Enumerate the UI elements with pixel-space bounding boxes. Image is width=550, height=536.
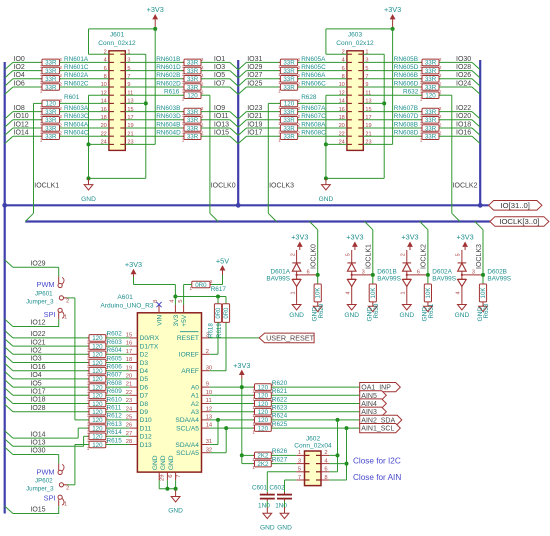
wire R607 to arduino [106,378,129,380]
junction GND J601 [87,176,91,180]
bus entry IO3 [5,355,13,362]
svg-text:R602: R602 [107,331,123,338]
bus entry IO17 [238,136,246,143]
label OA1_INP [360,383,401,392]
resistor RN605A 33R [280,59,297,66]
resistor R606 120 [89,367,106,374]
svg-text:1N0: 1N0 [275,502,287,509]
wire R620 to label [271,386,359,388]
ground [284,507,286,513]
svg-text:IOCLK1: IOCLK1 [366,244,373,269]
svg-text:IO26: IO26 [456,72,471,79]
wire J603 to RN608D [363,135,422,137]
svg-text:RN608C: RN608C [301,130,326,137]
svg-text:2: 2 [59,114,62,119]
junction SDA [336,418,340,422]
pin D10 (25) [129,419,137,421]
svg-text:IO27: IO27 [247,72,262,79]
svg-text:1: 1 [252,430,255,435]
wire R612 to arduino [106,419,129,421]
svg-text:+3V3: +3V3 [384,5,401,14]
resistor RN606D 33R [422,84,439,91]
svg-text:2: 2 [439,90,442,95]
svg-text:2: 2 [298,98,301,103]
wire J602 pin5 to C601 [267,471,296,473]
wire +3V3 top loop J603 [326,28,393,30]
resistor RN601B 33R [184,59,201,66]
pin GND (7) [175,472,177,480]
svg-text:RN607C: RN607C [301,113,326,120]
bus entry IO11 [230,120,238,127]
wire R603 to arduino [106,345,129,347]
svg-text:+3V3: +3V3 [125,260,142,269]
wire JP602 mid to D13 [74,445,76,485]
wire IO4 to resistor [13,78,42,80]
svg-text:IO31: IO31 [247,56,262,63]
junction SCL [345,426,349,430]
resistor R622 120 [255,400,272,407]
bus entry IO2 [5,347,13,354]
wire RN606C to J603 [298,86,347,88]
svg-text:RN604B: RN604B [156,121,180,128]
jumper JP602 Jumper_3 [56,454,59,456]
wire IO14 [13,437,78,439]
wire R625 to label [271,427,359,429]
bus entry IO18 [5,396,13,403]
svg-text:10K: 10K [481,288,487,299]
svg-text:33R: 33R [425,134,437,141]
svg-text:IO7: IO7 [214,80,225,87]
bus entry IO21 [5,339,13,346]
svg-text:2: 2 [439,81,442,86]
wire J603 to RN606B [363,78,422,80]
svg-text:120: 120 [92,376,103,383]
wire C602 gnd [284,501,286,507]
wire J601 to RN602B [125,78,184,80]
bus IO[31..0] vertical left [4,62,6,514]
svg-text:RN606B: RN606B [394,72,418,79]
pin AREF (30) [202,370,210,372]
svg-text:IO6: IO6 [14,80,25,87]
pin IOREF (2) [202,353,210,355]
wire pin12 GND loop [88,95,90,178]
svg-text:120: 120 [92,393,103,400]
wire IO12 to resistor [13,127,42,129]
wire J601 pin11 to R616 [125,94,184,96]
svg-text:RN608D: RN608D [394,130,419,137]
svg-text:2: 2 [201,57,204,62]
svg-text:2: 2 [439,106,442,111]
wire R621 to label [271,394,359,396]
svg-text:IO15: IO15 [30,507,45,514]
resistor RN604C 33R [42,133,60,140]
wire R628 to J603 pin14 [298,102,347,104]
svg-text:0R0: 0R0 [216,307,222,319]
svg-text:PWM: PWM [37,467,55,476]
svg-text:RN603B: RN603B [156,105,180,112]
svg-text:10K: 10K [316,288,322,299]
wire IO10 to resistor [13,119,42,121]
svg-text:IO15: IO15 [214,130,229,137]
bus entry IO17 [5,388,13,395]
pin VIN (8) [158,305,160,313]
bus label IO[31..0] [489,201,542,211]
wire RN607B to IO22 [439,111,472,113]
svg-text:J603: J603 [348,31,363,38]
resistor R613 120 [89,425,106,432]
svg-text:33R: 33R [425,84,437,91]
svg-text:R622: R622 [272,396,288,403]
bus entry IO8 [5,112,13,119]
svg-text:R605: R605 [107,355,123,362]
svg-text:Jumper_3: Jumper_3 [26,486,54,493]
pin D4 (19) [129,370,137,372]
svg-text:GND: GND [168,508,183,515]
svg-text:2: 2 [439,73,442,78]
svg-text:120: 120 [284,101,295,108]
svg-text:D9: D9 [140,409,149,416]
wire pin32 loop [225,428,227,453]
resistor R603 120 [89,343,106,350]
resistor R608 120 [89,384,106,391]
label AIN5 [360,391,387,400]
wire IO8 to resistor [13,111,42,113]
svg-text:RN605C: RN605C [301,64,326,71]
svg-text:2: 2 [298,106,301,111]
svg-text:GND: GND [289,312,304,319]
bus entry IOCLK1 [25,213,33,221]
pin D9 (24) [129,411,137,413]
svg-text:AIN1_SCL: AIN1_SCL [361,426,394,433]
svg-text:R624: R624 [272,413,288,420]
resistor RN605B 33R [422,59,439,66]
svg-text:33R: 33R [187,134,199,141]
resistor RN607B 33R [422,108,439,115]
svg-text:7: 7 [176,475,182,478]
svg-text:C601: C601 [252,484,268,491]
svg-text:2: 2 [201,106,204,111]
svg-text:IO17: IO17 [30,389,45,396]
bus junction right [478,203,483,208]
svg-text:RN602B: RN602B [156,72,180,79]
pin A1 (10) [202,394,210,396]
svg-text:+3V3: +3V3 [456,233,473,242]
svg-text:33R: 33R [187,76,199,83]
wire +3V3 vertical [154,29,156,144]
svg-text:D13: D13 [140,442,152,449]
svg-text:IO5: IO5 [30,380,41,387]
bus entry IO14 [5,136,13,143]
wire pin1 [125,53,146,55]
resistor R617 0R0 [192,281,210,288]
pin D6 (21) [129,386,137,388]
diode D602B BAV99S [461,250,463,263]
svg-text:33R: 33R [283,84,295,91]
svg-text:33R: 33R [45,134,57,141]
pin D0/RX (15) [129,337,137,339]
svg-text:R601: R601 [64,94,80,101]
wire to R626 [242,454,255,456]
svg-text:1: 1 [182,138,185,143]
bus entry IO19 [238,128,246,135]
svg-text:GND: GND [160,455,167,470]
bus label IOCLK[3..0] [490,217,549,227]
wire RN605C to J603 [298,70,347,72]
svg-text:IO9: IO9 [214,105,225,112]
wire R606 to arduino [106,370,129,372]
resistor RN603C 33R [42,117,60,124]
wire R617 to +5V pin [184,284,192,286]
wire J603 to RN606D [363,86,422,88]
svg-text:2: 2 [401,253,407,256]
svg-text:R630: R630 [373,303,380,318]
svg-text:1: 1 [40,138,43,143]
wire IO2 [13,353,89,355]
wire RN601B to IO1 [201,61,230,63]
svg-text:Close for I2C: Close for I2C [353,457,401,466]
wire pin12 [89,94,109,96]
svg-text:R625: R625 [272,421,288,428]
bus entry IOCLK2 clamp [420,222,428,230]
wire RN603A to J601 [60,111,109,113]
pin A2 (11) [202,403,210,405]
bus entry IOCLK3 [268,213,276,221]
resistor R626 2K2 [255,452,272,459]
svg-text:33R: 33R [187,68,199,75]
svg-text:A2: A2 [191,401,199,408]
svg-text:+3V3: +3V3 [291,233,308,242]
wire C601 gnd [266,501,268,507]
wire RN601A to J601 [60,61,109,63]
svg-text:2: 2 [201,81,204,86]
svg-text:D602A: D602A [432,269,452,276]
svg-text:2: 2 [298,131,301,136]
resistor RN608A 33R [280,125,297,132]
junction IOCLK3 clamp [481,273,485,277]
junction IOCLK0 clamp [316,273,320,277]
bus entry IO4 [5,372,13,379]
svg-text:2: 2 [439,122,442,127]
wire A to R624 [210,419,255,421]
wire A to R621 [210,394,255,396]
svg-text:R604: R604 [107,347,123,354]
wire pin23 J603 [363,143,392,145]
wire IOCLK3 clamp [482,230,484,284]
svg-text:R632: R632 [403,89,419,96]
resistor R623 120 [255,408,272,415]
wire +3V3 feed [133,277,135,285]
svg-text:D12: D12 [140,434,152,441]
svg-text:D602B: D602B [487,269,507,276]
svg-text:PWM: PWM [37,280,55,289]
svg-text:2: 2 [298,81,301,86]
svg-text:2: 2 [201,122,204,127]
label AIN1_SCL [360,424,401,433]
wire IO27 to resistor [246,78,280,80]
svg-text:IO2: IO2 [30,348,41,355]
svg-text:IO24: IO24 [456,80,471,87]
resistor R611 120 [89,408,106,415]
svg-text:2: 2 [298,114,301,119]
svg-text:RN604C: RN604C [64,130,89,137]
svg-text:J601: J601 [110,31,125,38]
wire pin1-13 GND loop J603 [383,54,385,178]
svg-text:IO14: IO14 [14,130,29,137]
svg-text:33R: 33R [283,117,295,124]
bus entry IO31 [238,62,246,69]
jumper JP601 Jumper_3 [56,266,59,268]
svg-text:IO3: IO3 [30,356,41,363]
svg-text:33R: 33R [187,117,199,124]
wire pin13 [125,102,146,104]
wire J602 pin2 [329,454,337,456]
wire RN602A to J601 [60,78,109,80]
resistor RN602D 33R [184,84,201,91]
wire J603 to RN608B [363,127,422,129]
svg-text:1: 1 [252,465,255,470]
wire J603 to RN607B [363,111,422,113]
svg-text:2: 2 [324,450,327,456]
resistor RN606C 33R [280,84,297,91]
svg-text:+3V3: +3V3 [147,5,164,14]
wire R601 to J601 pin14 [60,102,109,104]
wire pin12 J603 [326,94,347,96]
wire +5V to R617 [222,275,224,285]
wire A to R623 [210,411,255,413]
svg-text:A601: A601 [117,294,133,301]
resistor R628 120 [280,100,297,107]
svg-text:1: 1 [64,315,67,321]
wire IO0 to resistor [13,61,42,63]
wire IO25 to resistor [246,86,280,88]
wire GND bottom J603 [326,177,384,179]
wire 3V3 rail to R618 R619 [175,296,226,298]
svg-text:SPI: SPI [44,493,56,502]
bus entry IO21 [238,120,246,127]
svg-text:33R: 33R [425,76,437,83]
wire pin24 J603 [326,143,347,145]
bus entry IO30 [5,447,13,454]
pin A0 (9) [202,386,210,388]
svg-text:2: 2 [298,122,301,127]
wire pin2 drop J603 [325,29,327,54]
svg-text:120: 120 [258,417,269,424]
wire IOCLK3 vertical [268,102,280,104]
svg-text:Conn_02x12: Conn_02x12 [98,40,136,47]
svg-text:IO23: IO23 [247,105,262,112]
resistor RN606A 33R [280,76,297,83]
wire R608 to arduino [106,386,129,388]
svg-text:A3: A3 [191,409,199,416]
svg-text:RN601D: RN601D [156,64,181,71]
resistor R631 10K [424,284,431,302]
svg-text:GND: GND [81,196,96,203]
wire J602 pin4 [329,463,346,465]
bus entry IO4 [5,79,13,86]
bus entry IO16 [472,136,480,143]
svg-text:33R: 33R [187,109,199,116]
ground [461,303,463,304]
bus entry IO22 [5,331,13,338]
svg-text:RN606D: RN606D [394,80,419,87]
svg-text:IO4: IO4 [30,372,41,379]
bus entry IO25 [238,87,246,94]
wire RN603B to IO9 [201,111,230,113]
wire IO5 [13,386,89,388]
svg-text:120: 120 [258,425,269,432]
svg-text:IO17: IO17 [247,130,262,137]
svg-text:120: 120 [92,335,103,342]
wire IOCLK0 clamp [317,230,319,284]
svg-text:IO14: IO14 [30,431,45,438]
junction SCL J602 pin4 [345,462,349,466]
svg-text:VIN: VIN [156,315,163,326]
wire IO30 [13,454,56,456]
svg-text:D0/RX: D0/RX [140,335,160,342]
wire R610 to arduino [106,403,129,405]
svg-text:IO1: IO1 [214,56,225,63]
pin D7 (22) [129,394,137,396]
svg-text:Conn_02x04: Conn_02x04 [294,442,332,449]
pin D1/TX (16) [129,345,137,347]
svg-text:BAV99S: BAV99S [487,276,511,283]
svg-text:+5V: +5V [181,314,188,327]
resistor R601 120 [42,100,60,107]
resistor R627 2K2 [255,460,272,467]
wire R619 to AREF [225,322,227,370]
ground R631 [427,305,429,307]
ground [266,507,268,513]
wire RN603C to J601 [60,119,109,121]
wire RN607D to IO20 [439,119,472,121]
bus IO[31..0] horizontal [4,204,489,206]
connector J603 Conn_02x12 [347,51,363,151]
svg-text:IO12: IO12 [30,320,45,327]
svg-text:R629: R629 [318,303,325,318]
ground [296,303,298,304]
resistor RN602A 33R [42,76,60,83]
connector J602 Conn_02x04 [305,451,322,486]
resistor R604 120 [89,351,106,358]
svg-text:R618: R618 [208,323,215,338]
bus entry IO9 [230,112,238,119]
junction 3V3 rail [173,295,177,299]
svg-text:33R: 33R [45,76,57,83]
wire IO17 to resistor [246,135,280,137]
resistor R624 120 [255,417,272,424]
ground [175,490,177,496]
wire RN608C to J603 [298,135,347,137]
bus entry IO10 [5,120,13,127]
wire RN606D to IO24 [439,86,472,88]
svg-text:2: 2 [206,349,209,355]
junction IOCLK1 clamp [371,273,375,277]
svg-text:2: 2 [66,299,69,305]
bus entry IO15 [5,506,13,513]
wire IOCLK1 vertical [34,102,43,104]
svg-text:120: 120 [92,360,103,367]
svg-text:120: 120 [92,409,103,416]
bus entry IOCLK1 clamp [365,222,373,230]
wire RN608D to IO16 [439,135,472,137]
junction A0 +3V3 [240,385,244,389]
svg-text:RN602A: RN602A [64,72,89,79]
resistor RN607C 33R [280,117,297,124]
svg-text:6: 6 [168,475,174,478]
svg-text:R627: R627 [272,456,288,463]
svg-text:IO[31..0]: IO[31..0] [500,201,530,210]
resistor RN602B 33R [184,76,201,83]
